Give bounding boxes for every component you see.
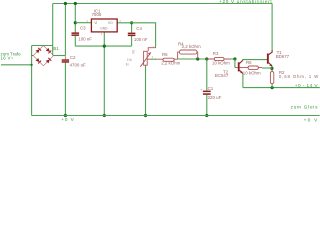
node 0V rail dot GND: [103, 114, 106, 117]
svg-text:R6: R6: [246, 60, 252, 65]
bridge rectifier B1 diode 1: [36, 49, 40, 53]
resistor R3: [207, 58, 231, 60]
wire main node: [178, 58, 235, 60]
svg-text:2,2 kOhm: 2,2 kOhm: [161, 61, 180, 66]
wire left vertical to 0V rail: [31, 46, 33, 116]
svg-text:10k: 10k: [127, 58, 133, 62]
node main dot R4 lead: [196, 57, 199, 60]
wire C4 top: [131, 23, 133, 33]
node 0V rail dot C1: [205, 114, 208, 117]
svg-text:16 V~: 16 V~: [1, 56, 14, 61]
svg-text:C4: C4: [136, 26, 142, 31]
transistor T1 collector pin: [269, 50, 273, 55]
potentiometer R1 body: [144, 51, 148, 65]
wire rail drop to bridge right corner: [52, 4, 54, 56]
resistor R4: [178, 52, 198, 59]
voltage regulator IC1 box: [91, 19, 117, 32]
svg-text:7805: 7805: [92, 12, 102, 17]
node output dot R2: [271, 86, 274, 89]
svg-text:lin: lin: [126, 63, 129, 67]
wire bridge right corner to C2 column: [54, 55, 66, 57]
bridge rectifier B1 diode 3: [36, 58, 40, 62]
svg-text:BD677: BD677: [276, 54, 290, 59]
svg-text:2,2 kOhm: 2,2 kOhm: [182, 44, 201, 49]
node rail dot VI: [74, 2, 77, 5]
bridge pin left corner: [32, 55, 34, 57]
transistor T2 base pin: [235, 67, 238, 69]
wire bridge top horizontal: [32, 45, 53, 47]
svg-text:R3: R3: [213, 51, 219, 56]
svg-text:VI: VI: [94, 21, 97, 25]
node GND bus dot: [103, 45, 106, 48]
wire C1 bottom to 0V rail: [206, 95, 208, 116]
svg-text:C1: C1: [208, 86, 214, 91]
wire pot bottom to 0V rail: [145, 65, 147, 115]
capacitor C4: [128, 33, 136, 37]
wire R2 bottom: [271, 84, 273, 88]
transistor T2 bar: [238, 62, 240, 71]
capacitor C1: [203, 91, 211, 95]
wire wiper to R5: [152, 58, 158, 60]
svg-text:100 nF: 100 nF: [78, 36, 92, 41]
transistor T2 emitter: [239, 70, 243, 73]
wire C4 bottom to GND bus: [131, 36, 133, 46]
svg-text:BC547: BC547: [215, 73, 229, 78]
bridge rectifier B1 diode 2: [46, 48, 50, 52]
node 0V rail dot C2: [64, 114, 67, 117]
svg-text:0,68 Ohm, 1 W: 0,68 Ohm, 1 W: [279, 74, 319, 79]
wire top rail +20V: [53, 3, 273, 5]
wire C1 riser: [206, 59, 208, 91]
wire output line: [243, 87, 320, 89]
resistor R2: [270, 72, 273, 84]
wire C2 column upper: [64, 4, 66, 56]
wire T2 collector to T1 base: [243, 59, 267, 61]
node R2 top dot: [270, 67, 273, 70]
svg-text:GND: GND: [100, 27, 108, 31]
svg-text:R5: R5: [162, 52, 168, 57]
wire GND bus: [75, 45, 131, 47]
svg-text:10 kOhm: 10 kOhm: [243, 71, 261, 76]
svg-text:B1: B1: [53, 46, 59, 51]
transistor T1 bar: [267, 54, 269, 64]
capacitor C2: [62, 59, 69, 62]
node VO wire dot C4: [130, 21, 133, 24]
potentiometer R1 wiper pin: [147, 58, 152, 60]
svg-text:220 uF: 220 uF: [208, 95, 222, 100]
capacitor C3: [72, 32, 80, 36]
pin C2 top: [64, 56, 66, 60]
wire T2 base drop: [234, 59, 236, 68]
svg-text:+: +: [200, 88, 202, 92]
wire T1 collector riser: [271, 4, 273, 50]
node VI branch junction: [74, 21, 77, 24]
potentiometer R1 pin top: [148, 47, 155, 51]
svg-text:+0 - 14 V: +0 - 14 V: [295, 83, 319, 88]
svg-text:C2: C2: [70, 55, 76, 60]
wire 0V bottom rail: [32, 115, 320, 117]
wire T2 emitter drop: [242, 74, 244, 88]
svg-text:+0 V: +0 V: [61, 117, 74, 122]
svg-text:C3: C3: [80, 26, 86, 31]
svg-text:100 nF: 100 nF: [134, 37, 148, 42]
potentiometer R1 wiper: [140, 52, 151, 66]
svg-text:VO: VO: [108, 21, 113, 25]
wire VI pin: [75, 22, 91, 24]
node 0V rail dot pot: [144, 114, 147, 117]
resistor R5: [157, 58, 177, 60]
svg-text:R1: R1: [132, 49, 136, 53]
svg-text:4700 uF: 4700 uF: [70, 63, 86, 68]
svg-text:10 kOhm: 10 kOhm: [212, 60, 230, 65]
svg-text:+20 V unstabilisiert: +20 V unstabilisiert: [219, 0, 272, 4]
wire VI branch vertical: [74, 4, 76, 33]
svg-text:+0 V: +0 V: [304, 117, 319, 122]
wire VO to pot: [117, 23, 155, 47]
node rail dot C2: [64, 2, 67, 5]
transistor T2 collector: [239, 60, 243, 63]
wire C3 bottom to GND bus: [74, 36, 76, 46]
resistor R6: [239, 67, 262, 69]
wire R6 to R2 top: [262, 67, 272, 69]
node main dot T2 branch: [233, 57, 236, 60]
wire T1 emitter to R2: [271, 66, 273, 71]
node main dot C1: [205, 57, 208, 60]
transistor T1 emitter: [269, 63, 273, 67]
node trafo junction: [31, 64, 33, 66]
bridge rectifier B1 diode 4: [46, 59, 50, 63]
wire C2 column lower: [64, 63, 66, 116]
wire trafo lead: [1, 64, 32, 66]
svg-text:zum Gleis: zum Gleis: [291, 104, 319, 109]
wire IC1 GND drop: [103, 32, 105, 116]
